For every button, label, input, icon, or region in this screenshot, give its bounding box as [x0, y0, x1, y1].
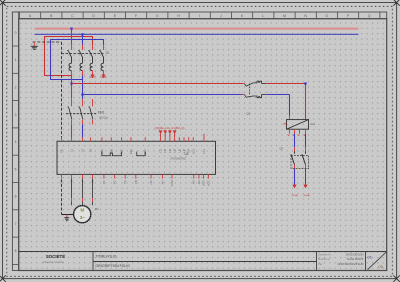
svg-text:PB: PB — [134, 180, 138, 184]
svg-text:CL1: CL1 — [202, 149, 206, 154]
svg-text:M: M — [80, 208, 84, 214]
svg-text:LI4: LI4 — [173, 149, 177, 153]
svg-text:LO1: LO1 — [191, 149, 195, 154]
svg-text:(CDE-LI1.4-MD-1): (CDE-LI1.4-MD-1) — [155, 127, 185, 130]
svg-text:(62-Q1): (62-Q1) — [99, 117, 108, 120]
svg-text:Q2: Q2 — [247, 111, 251, 115]
svg-text:3: 3 — [84, 47, 85, 49]
svg-text:AI3: AI3 — [197, 180, 201, 184]
svg-text:6: 6 — [15, 195, 17, 199]
svg-text:AOV: AOV — [202, 180, 206, 186]
svg-text:01: 01 — [368, 254, 373, 259]
svg-text:3: 3 — [84, 102, 85, 104]
svg-text:8: 8 — [15, 249, 17, 253]
svg-text:NOM DESSINATEUR: NOM DESSINATEUR — [338, 262, 364, 266]
svg-text:4: 4 — [79, 123, 80, 125]
svg-text:I: I — [199, 14, 200, 18]
svg-text:AI2: AI2 — [192, 180, 196, 184]
svg-text:F: F — [135, 14, 137, 18]
svg-text:2: 2 — [68, 123, 69, 125]
svg-text:PO: PO — [113, 180, 117, 184]
svg-text:L: L — [262, 14, 264, 18]
svg-text:4: 4 — [267, 92, 268, 94]
svg-text:DATE DESSIN: DATE DESSIN — [346, 252, 364, 256]
svg-text:SOCIÉTÉ: SOCIÉTÉ — [46, 254, 65, 259]
svg-text:Q1: Q1 — [106, 51, 110, 55]
svg-text:Q: Q — [368, 14, 371, 18]
svg-text:(24VA): (24VA) — [291, 194, 298, 197]
svg-text:DATE MODIF: DATE MODIF — [347, 257, 364, 261]
svg-text:1: 1 — [73, 47, 74, 49]
svg-text:KM1: KM1 — [98, 111, 105, 115]
svg-text:O: O — [326, 14, 329, 18]
svg-text:(ALIM): (ALIM) — [89, 76, 96, 79]
svg-text:R2A: R2A — [129, 149, 133, 154]
svg-text:DESCRIPTION FOLIO: DESCRIPTION FOLIO — [96, 264, 131, 268]
svg-text:3: 3 — [242, 92, 243, 94]
svg-text:4: 4 — [84, 74, 85, 76]
svg-text:2: 2 — [85, 200, 86, 202]
svg-text:1: 1 — [73, 102, 74, 104]
svg-text:6: 6 — [89, 123, 90, 125]
svg-text:Adresse société: Adresse société — [42, 260, 64, 264]
svg-text:LI1: LI1 — [159, 149, 163, 153]
svg-text:0: 0 — [15, 31, 17, 35]
svg-text:1: 1 — [242, 81, 243, 83]
svg-text:U1: U1 — [185, 152, 189, 156]
svg-text:Par :: Par : — [318, 262, 324, 266]
svg-text:2: 2 — [15, 86, 17, 90]
svg-text:PA: PA — [123, 180, 127, 184]
svg-text:1: 1 — [15, 58, 17, 62]
svg-text:M1: M1 — [95, 207, 99, 211]
svg-text:2: 2 — [73, 74, 74, 76]
svg-text:4: 4 — [15, 140, 17, 144]
svg-text:5: 5 — [94, 102, 95, 104]
svg-text:J: J — [220, 14, 222, 18]
svg-text:5: 5 — [94, 47, 95, 49]
svg-text:PE: PE — [60, 149, 64, 153]
svg-text:Q3: Q3 — [280, 147, 284, 151]
svg-text:2: 2 — [267, 81, 268, 83]
svg-text:3: 3 — [15, 113, 17, 117]
svg-text:7: 7 — [105, 47, 106, 49]
svg-text:(24VA): (24VA) — [303, 194, 310, 197]
svg-text:ATV31H037M2: ATV31H037M2 — [170, 158, 186, 161]
svg-text:+10: +10 — [149, 180, 153, 185]
svg-text:3: 3 — [95, 200, 96, 202]
svg-text:LI5: LI5 — [177, 149, 181, 153]
svg-text:TITRE FOLIO: TITRE FOLIO — [96, 255, 117, 259]
svg-text:G: G — [156, 14, 159, 18]
svg-text:LI3: LI3 — [168, 149, 172, 153]
svg-text:AOC: AOC — [206, 180, 210, 186]
svg-text:(ALIM): (ALIM) — [101, 76, 108, 79]
svg-text:AI1: AI1 — [161, 180, 165, 184]
svg-text:LI2: LI2 — [163, 149, 167, 153]
svg-text:AL1: AL1 — [310, 122, 315, 126]
svg-text:3~: 3~ — [80, 215, 85, 220]
svg-text:7: 7 — [15, 222, 17, 226]
svg-text:M: M — [283, 14, 286, 18]
svg-text:5: 5 — [15, 167, 17, 171]
svg-text:1: 1 — [74, 200, 75, 202]
svg-text:Modifié le :: Modifié le : — [318, 257, 331, 261]
svg-text:PC: PC — [102, 180, 106, 184]
svg-text:Dessiné le :: Dessiné le : — [318, 252, 332, 256]
svg-text:COM: COM — [170, 180, 174, 186]
svg-text:03: 03 — [378, 264, 383, 269]
svg-text:PE: PE — [60, 180, 64, 184]
